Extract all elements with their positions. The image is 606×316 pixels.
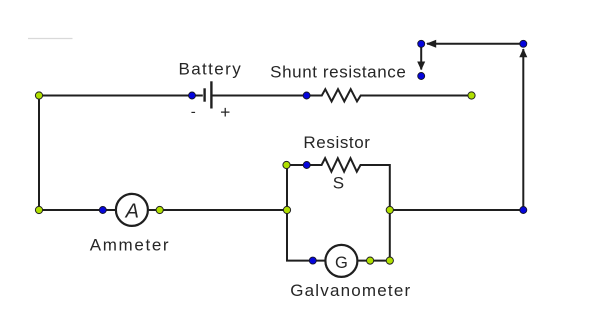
svg-text:+: + xyxy=(220,102,230,122)
svg-text:Battery: Battery xyxy=(178,59,242,78)
svg-text:G: G xyxy=(335,254,348,272)
svg-text:S: S xyxy=(333,173,344,192)
svg-text:Shunt resistance: Shunt resistance xyxy=(270,63,406,82)
svg-text:A: A xyxy=(125,200,139,222)
svg-text:Ammeter: Ammeter xyxy=(90,235,171,254)
svg-text:Resistor: Resistor xyxy=(303,133,370,152)
svg-text:Galvanometer: Galvanometer xyxy=(290,281,411,300)
svg-text:-: - xyxy=(191,104,196,121)
